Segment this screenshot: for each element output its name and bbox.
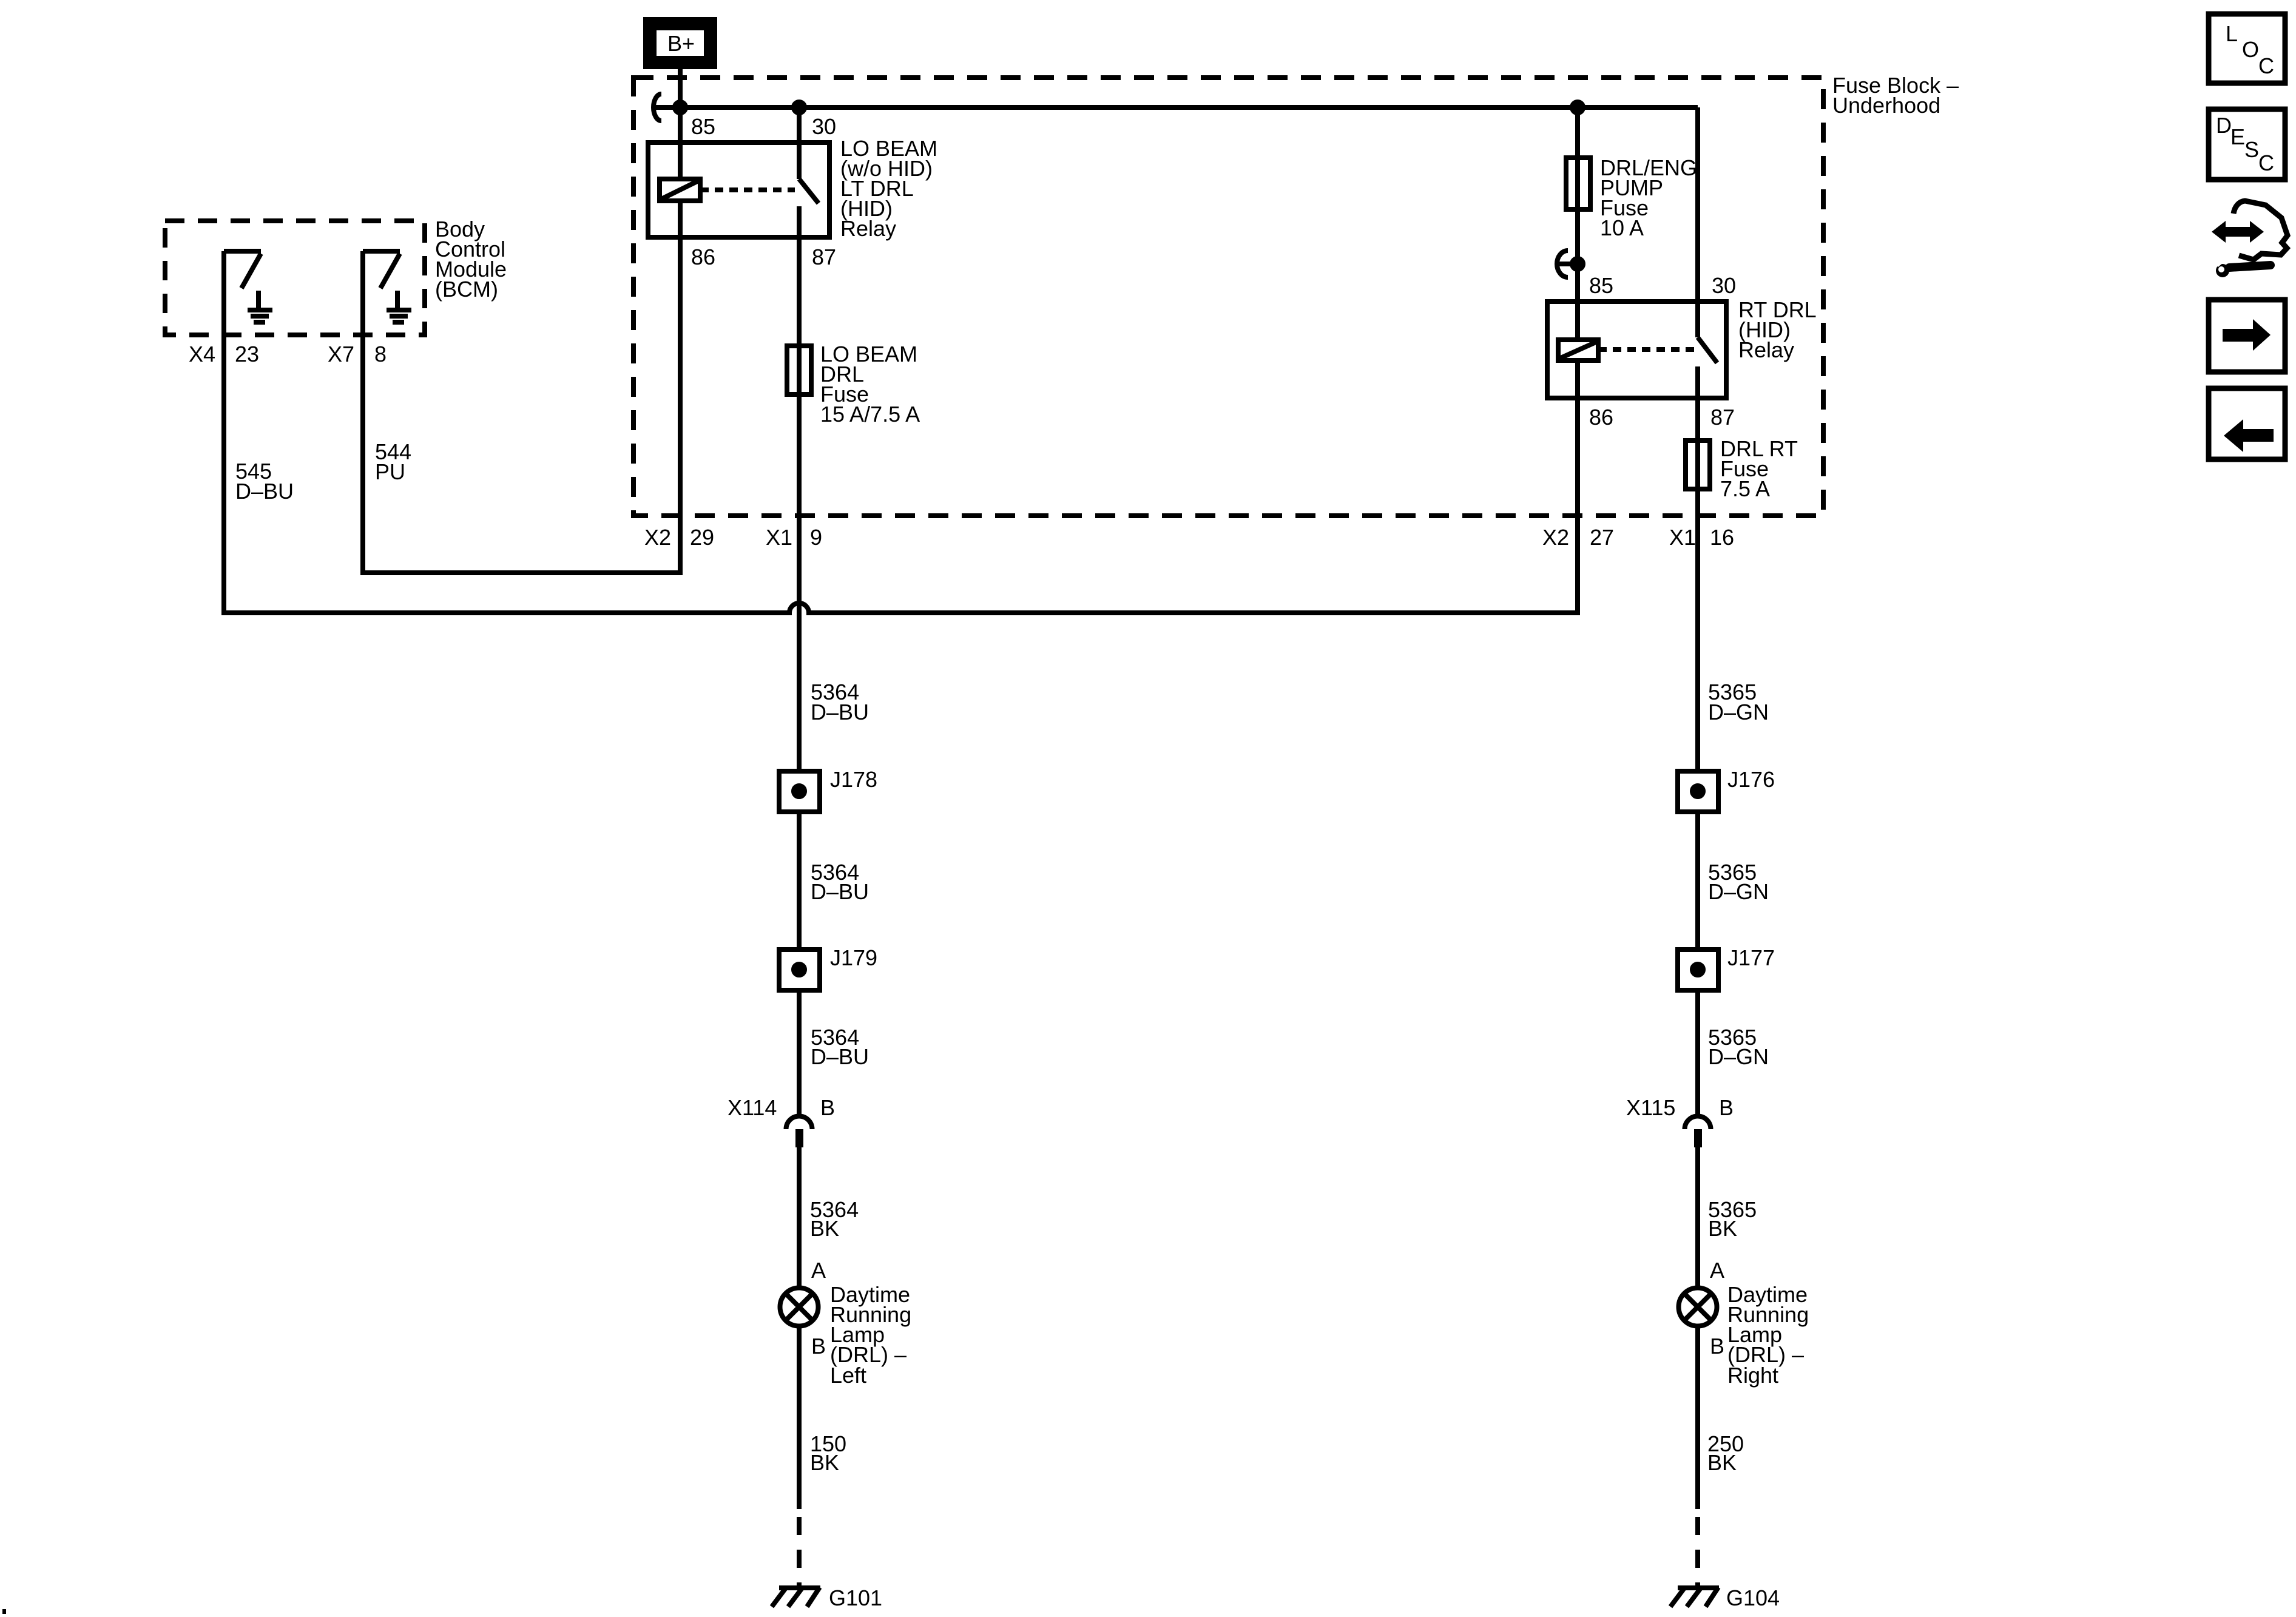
svg-text:X7: X7	[328, 342, 354, 366]
wire: J176 to J177	[1695, 812, 1700, 950]
label DRL RT fuse	[1720, 436, 1798, 501]
svg-text:X2: X2	[1542, 525, 1569, 550]
label circuit 5364 D-BU (middle)	[811, 860, 869, 904]
wire: B+ rail inside fuse block	[654, 105, 1698, 110]
label LO BEAM DRL fuse	[820, 342, 920, 427]
node: junction rail/DRL-ENG fuse branch	[1572, 102, 1583, 113]
label circuit 5364 D-BU (upper)	[811, 680, 869, 724]
wire: B+ feed stem	[678, 66, 683, 107]
power symbol B+	[646, 19, 715, 67]
wire: lamp to ground (circuit 250 BK)	[1695, 1326, 1700, 1509]
fuse block lower connector labels X2 29 X1 9	[644, 525, 822, 550]
svg-text:J177: J177	[1727, 945, 1775, 970]
ground symbol inside BCM (switch 2)	[387, 291, 411, 322]
svg-text:X2: X2	[644, 525, 671, 550]
label circuit 5365 D-GN (upper)	[1708, 680, 1769, 724]
svg-text:30: 30	[812, 114, 836, 139]
svg-text:29: 29	[690, 525, 714, 550]
label circuit 545 D-BU	[235, 459, 294, 504]
relay K1 actuation dashed link	[700, 187, 795, 192]
svg-text:BK: BK	[1707, 1450, 1737, 1475]
svg-text:C: C	[2258, 53, 2274, 78]
svg-text:Relay: Relay	[840, 216, 896, 241]
label circuit 150 BK	[810, 1431, 846, 1475]
wire: J177 to connector X115	[1695, 990, 1700, 1115]
wire: lamp to ground (circuit 150 BK)	[797, 1326, 802, 1509]
nav icon hand with double arrow and wrench	[2212, 201, 2288, 277]
svg-text:30: 30	[1712, 273, 1736, 298]
svg-text:16: 16	[1710, 525, 1734, 550]
svg-text:X4: X4	[189, 342, 215, 366]
wire: X114 to lamp (circuit 5364 BK)	[797, 1147, 802, 1288]
svg-text:O: O	[2242, 37, 2259, 62]
svg-text:J178: J178	[830, 767, 877, 792]
body control module dashed box	[165, 221, 425, 335]
svg-text:(BCM): (BCM)	[435, 277, 498, 302]
svg-text:15 A/7.5 A: 15 A/7.5 A	[820, 402, 920, 427]
svg-text:X1: X1	[766, 525, 792, 550]
svg-text:85: 85	[691, 114, 715, 139]
svg-text:B: B	[820, 1095, 835, 1120]
svg-text:BK: BK	[810, 1450, 839, 1475]
svg-text:BK: BK	[1708, 1216, 1737, 1241]
svg-text:Relay: Relay	[1738, 337, 1794, 362]
svg-text:86: 86	[691, 245, 715, 269]
node: junction B+/rail	[675, 102, 686, 113]
fusible link hook at rail end	[653, 94, 661, 121]
BCM driver switch 2 (pin 8)	[363, 251, 400, 335]
ground symbol inside BCM (switch 1)	[248, 291, 272, 322]
label circuit 5364 D-BU (lower)	[811, 1025, 869, 1069]
svg-text:J176: J176	[1727, 767, 1775, 792]
svg-text:9: 9	[810, 525, 822, 550]
svg-text:87: 87	[812, 245, 836, 269]
svg-text:A: A	[811, 1258, 826, 1283]
label circuit 5365 BK	[1708, 1197, 1757, 1241]
nav icon forward arrow box	[2209, 300, 2285, 372]
wire: rail branch down through DRL/ENG PUMP fuse	[1575, 107, 1580, 340]
svg-text:PU: PU	[375, 459, 405, 484]
relay K2 switch contact	[1698, 107, 1717, 398]
label DRL/ENG PUMP fuse	[1600, 155, 1697, 240]
relay K1 switch contact	[799, 107, 819, 237]
ground G101 symbol	[772, 1587, 820, 1607]
label circuit 5364 BK	[810, 1197, 859, 1241]
label Fuse Block - Underhood	[1832, 73, 1959, 118]
lamp E2 Daytime Running Lamp (DRL) - Right	[1679, 1288, 1717, 1326]
svg-text:D–GN: D–GN	[1708, 1044, 1769, 1069]
svg-text:D–GN: D–GN	[1708, 700, 1769, 724]
svg-text:7.5 A: 7.5 A	[1720, 476, 1770, 501]
label Body Control Module (BCM)	[435, 217, 507, 302]
svg-text:A: A	[1710, 1258, 1724, 1283]
svg-text:BK: BK	[810, 1216, 839, 1241]
ground G104 symbol	[1670, 1587, 1719, 1607]
svg-text:S: S	[2244, 137, 2259, 162]
label circuit 5365 D-GN (middle)	[1708, 860, 1769, 904]
svg-text:D–BU: D–BU	[811, 700, 869, 724]
relay K2 coil	[1558, 340, 1598, 360]
svg-text:D–BU: D–BU	[811, 879, 869, 904]
relay K2 actuation dashed link	[1598, 347, 1694, 352]
svg-text:23: 23	[235, 342, 259, 366]
node: junction rail/pin30 branch	[794, 102, 805, 113]
relay K1 coil	[660, 179, 700, 201]
svg-text:10 A: 10 A	[1600, 215, 1644, 240]
label Daytime Running Lamp (DRL) - Right	[1727, 1282, 1809, 1388]
label X115 B	[1626, 1095, 1734, 1120]
wire: BCM pin 23 to X2-27 (circuit 545 D-BU) with hop over X1-9 wire	[224, 335, 1578, 613]
wire: dashed ground drop	[797, 1517, 802, 1588]
svg-text:B: B	[1719, 1095, 1734, 1120]
svg-text:B: B	[811, 1334, 826, 1359]
node: junction pin85 hook	[1572, 258, 1583, 269]
label X114 B	[728, 1095, 835, 1120]
nav icon back arrow box	[2209, 388, 2285, 459]
svg-text:85: 85	[1589, 273, 1613, 298]
svg-text:Underhood: Underhood	[1832, 93, 1940, 118]
svg-text:87: 87	[1710, 405, 1735, 430]
fuse F3 DRL RT 7.5A	[1686, 441, 1710, 489]
wire: J178 to J179	[797, 812, 802, 950]
nav icon DESC box	[2209, 109, 2285, 180]
wire: pin 87 down to LO BEAM DRL fuse and X1-9	[797, 237, 802, 771]
splice J178	[779, 771, 820, 812]
svg-text:D–GN: D–GN	[1708, 879, 1769, 904]
label circuit 544 PU	[375, 439, 411, 484]
svg-text:D: D	[2216, 113, 2232, 138]
svg-text:Right: Right	[1727, 1363, 1778, 1388]
connector X115 terminal B	[1685, 1116, 1711, 1147]
svg-text:C: C	[2258, 150, 2274, 175]
svg-text:86: 86	[1589, 405, 1613, 430]
svg-text:X115: X115	[1626, 1095, 1675, 1120]
svg-text:G101: G101	[829, 1585, 882, 1610]
label LO BEAM relay name	[840, 136, 937, 241]
fuse F2 DRL/ENG PUMP 10A	[1566, 158, 1590, 209]
svg-text:8: 8	[374, 342, 387, 366]
svg-text:D–BU: D–BU	[235, 479, 294, 504]
stray page mark bottom-left	[2, 1609, 6, 1614]
svg-text:L: L	[2226, 21, 2238, 46]
label Daytime Running Lamp (DRL) - Left	[830, 1282, 911, 1388]
fuse F1 LO BEAM DRL 15A/7.5A	[787, 346, 811, 394]
label circuit 5365 D-GN (lower)	[1708, 1025, 1769, 1069]
svg-text:Left: Left	[830, 1363, 866, 1388]
wire: K2 pin 87 down through DRL RT fuse and X1-16	[1695, 398, 1700, 771]
relay K2 RT DRL (HID) Relay box	[1547, 302, 1726, 398]
svg-text:J179: J179	[830, 945, 877, 970]
splice J176	[1678, 771, 1718, 812]
relay K1 LO BEAM (w/o HID) LT DRL (HID) Relay box	[648, 143, 829, 237]
svg-text:B+: B+	[667, 31, 695, 56]
fuse block lower connector labels X2 27 X1 16	[1542, 525, 1734, 550]
svg-text:G104: G104	[1726, 1585, 1780, 1610]
wire: X115 to lamp (circuit 5365 BK)	[1695, 1147, 1700, 1288]
wire: coil pin 86 down to X2-29 and across to BCM pin 8 (circuit 544 PU)	[363, 201, 680, 573]
BCM connector pin labels X4 23 X7 8	[189, 342, 387, 366]
label circuit 250 BK	[1707, 1431, 1744, 1475]
svg-text:X114: X114	[728, 1095, 777, 1120]
wire: K2 coil pin 86 down to X2-27	[1575, 360, 1580, 400]
nav icon LOC box	[2209, 14, 2285, 83]
BCM driver switch 1 (pin 23)	[224, 251, 261, 335]
lamp E1 Daytime Running Lamp (DRL) - Left	[780, 1288, 819, 1326]
connector X114 terminal B	[786, 1116, 812, 1147]
wire: dashed ground drop	[1695, 1517, 1700, 1588]
svg-text:B: B	[1710, 1334, 1724, 1359]
svg-text:X1: X1	[1669, 525, 1696, 550]
splice J177	[1678, 950, 1718, 990]
svg-text:27: 27	[1590, 525, 1614, 550]
svg-text:D–BU: D–BU	[811, 1044, 869, 1069]
splice J179	[779, 950, 820, 990]
label RT DRL relay name	[1738, 297, 1817, 362]
fuse block - underhood dashed boundary	[633, 78, 1823, 516]
svg-text:E: E	[2230, 124, 2245, 149]
fusible link hook at relay 2 pin 85	[1557, 251, 1578, 277]
wire: J179 to connector X114	[797, 990, 802, 1115]
wire: pin 85 into coil	[678, 107, 683, 179]
